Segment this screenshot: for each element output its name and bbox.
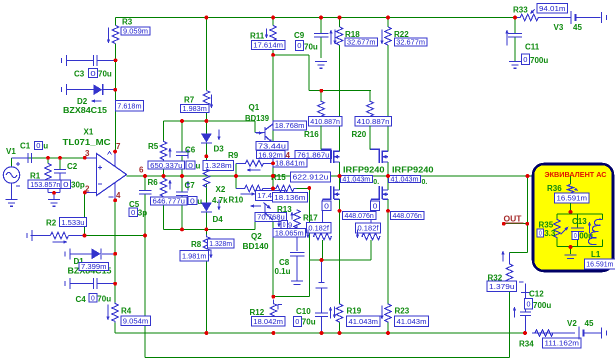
resistor R7 [203,91,209,109]
wire C6 top lead [181,121,183,152]
svg-text:70u: 70u [98,69,112,78]
box 18.065m [273,229,306,238]
svg-text:17.614m: 17.614m [253,41,283,50]
wire R23 bottom lead [387,323,389,334]
resistor R19 [336,304,342,323]
svg-text:0: 0 [539,229,542,238]
wire D2 right lead [104,89,116,91]
junction [83,234,87,238]
wire D1 right lead [102,253,115,255]
wire y229 rail C7 D4 Q2-base [164,228,256,230]
resistor R11 [270,26,276,44]
svg-text:u: u [43,142,48,151]
wire R7 column from rail [205,18,207,91]
capacitor C3 [62,55,67,66]
junction [525,222,529,226]
svg-text:70u: 70u [97,295,111,304]
junction [205,228,209,232]
junction [205,154,209,158]
ground C9 [315,62,327,69]
capacitor C7 [176,192,188,196]
wire C5 top lead [144,176,146,191]
wire gate feed to R16 R20 [309,90,371,92]
svg-text:9.059m: 9.059m [123,27,148,36]
wire pin4 to D1 [114,201,116,254]
wire R1-C2 join [48,192,60,194]
svg-text:16.591m: 16.591m [557,194,588,203]
svg-text:V2: V2 [567,319,577,328]
resistor R1 [45,164,51,182]
resistor R3 [112,26,118,44]
svg-text:R4: R4 [121,307,132,316]
wire L1 top lead [602,214,604,220]
capacitor C6 [176,152,188,156]
svg-text:R12: R12 [250,308,265,317]
svg-text:C7: C7 [185,181,196,190]
svg-text:45: 45 [573,23,582,32]
capacitor C11 [508,34,522,38]
wire D2 left lead [67,89,94,91]
svg-text:9.054m: 9.054m [123,316,149,325]
svg-text:R6: R6 [148,178,159,187]
junction [113,88,117,92]
wire y120 rail C6 D3 Q1-base [164,120,256,122]
junction [386,331,390,335]
svg-text:7.618m: 7.618m [117,101,141,110]
svg-text:R9: R9 [228,151,239,160]
resistor R23 [385,304,391,323]
inductor L1 [589,219,603,244]
ground C8 [291,281,303,284]
wire R22 top lead [387,18,389,28]
svg-text:C1: C1 [20,142,31,151]
svg-text:R16: R16 [304,130,319,139]
svg-text:BZX84C15: BZX84C15 [63,106,108,115]
Q1 box 18.768m [273,121,307,130]
wire FET drain to R19 [339,211,341,304]
svg-text:0.: 0. [373,179,379,186]
wire C2 bottom lead [59,173,61,193]
wire riser to C10 node [308,260,310,297]
junction [271,16,275,20]
wire FET drain to R23 [387,211,389,304]
MOSFET lower right IRFP9240 [371,186,388,200]
capacitor C9 [314,34,329,38]
junction [143,174,147,178]
wire R32 top lead [509,253,511,259]
svg-text:C8: C8 [279,258,290,267]
wire V3 to terminal [576,17,601,19]
junction [234,174,238,178]
resistor R35 [554,219,560,239]
wire C12 bottom lead [525,316,527,334]
svg-text:C11: C11 [525,43,540,52]
diode D4 [201,203,212,213]
wire R35 bottom lead [556,239,558,247]
svg-text:C9: C9 [294,31,305,40]
junction [180,174,184,178]
wire C7 bottom lead [181,196,183,230]
equivalent AC yellow panel [533,164,613,271]
MOSFET lower left IRFP9240 [323,186,340,200]
svg-text:0: 0 [297,41,301,50]
junction [386,16,390,20]
wire gate feed riser [308,55,310,91]
wire R11 to Q1 collector [272,44,274,125]
svg-text:6: 6 [139,166,144,175]
box 0 lower left FET [322,201,331,211]
wire C4 to R4 [114,284,116,303]
svg-text:0.1u: 0.1u [275,267,291,276]
svg-text:622.912u: 622.912u [293,173,329,182]
wire to ground R1C2 [53,193,55,200]
D3 current box [203,160,234,170]
svg-text:0: 0 [523,55,527,64]
junction [271,53,275,57]
wire R2 right lead [69,235,85,237]
svg-text:41.043m: 41.043m [391,175,419,184]
svg-text:OUT: OUT [504,214,523,224]
resistor R8 [203,235,209,257]
junction [386,209,390,213]
junction [320,258,324,262]
junction [320,331,324,335]
capacitor C5 [139,191,152,195]
wire R33 to V3 [542,17,571,19]
svg-text:18.065m: 18.065m [275,229,304,238]
wire left column R3->C3->D2->pin7 [115,44,117,152]
svg-text:X2: X2 [216,185,226,194]
junction [271,187,275,191]
svg-text:0: 0 [527,299,531,308]
box 18.841m [273,159,307,168]
svg-text:0: 0 [188,161,193,170]
box 0.182f left [306,223,331,233]
junction [271,174,275,178]
svg-text:R19: R19 [347,307,362,316]
svg-text:646.777u: 646.777u [153,197,186,206]
wire tank top [557,213,603,215]
wire C2 top lead [59,158,61,170]
node R36 tank [569,210,573,214]
svg-text:0: 0 [36,141,40,150]
svg-text:94.01m: 94.01m [539,4,566,13]
wire D4 to R8 [205,212,207,237]
wire R5 bottom lead [163,161,165,177]
junction [113,252,117,256]
svg-text:32.677m: 32.677m [396,38,425,47]
svg-text:TL071_MC: TL071_MC [63,138,111,147]
junction [205,331,209,335]
svg-text:1.328m: 1.328m [205,161,232,170]
wire C8 to ground [296,257,298,282]
junction [307,186,311,190]
junction [502,222,506,226]
wire Q2 base riser [254,222,256,230]
wire lower left gate lead [322,199,324,233]
wire Q1 collector-emitter column segment [272,125,274,143]
svg-text:0: 0 [295,317,299,326]
svg-text:45: 45 [585,319,594,328]
wire lower right gate res to rail [370,240,372,260]
wire R34 to V2 [556,332,575,334]
svg-text:C10: C10 [296,307,311,316]
resistor R20 [367,101,373,119]
junction [338,331,342,335]
wire R35 top lead [556,214,558,219]
wire R7 to D3 [205,109,207,134]
svg-text:C12: C12 [529,290,544,299]
wire V2 to terminal [584,332,602,334]
MOSFET upper left IRFP9240 [321,149,340,164]
wire lower FET drain left [339,199,341,211]
resistor R15 [274,185,297,191]
svg-text:R17: R17 [303,214,318,223]
junction [319,16,323,20]
junction [513,16,517,20]
svg-text:u: u [197,197,202,206]
wire Q1 emitter to Q2 column [272,143,274,201]
wire C10 mid stem [321,288,323,313]
wire main VAS/output rail y175 [127,175,571,177]
junction [205,16,209,20]
wire C11 top lead [514,18,516,34]
diode D1 BZX84C15 [65,248,70,259]
terminal V2 [602,328,607,339]
svg-text:R3: R3 [122,18,133,27]
wire R13 to C8 [296,226,298,252]
wire C6 bottom lead [181,156,183,177]
svg-text:18.841m: 18.841m [275,159,305,168]
svg-text:ЭКВИВАЛЕНТ АС: ЭКВИВАЛЕНТ АС [545,170,607,179]
wire R15 right lead [297,188,310,190]
svg-text:1.328m: 1.328m [209,239,232,248]
junction [338,174,342,178]
wire OUT riser [527,176,529,253]
junction [180,228,184,232]
resistor R18 [336,27,342,45]
junction [271,161,275,165]
junction [338,209,342,213]
svg-text:30p: 30p [71,181,85,190]
junction [113,198,117,202]
wire C3 left lead [67,59,94,61]
wire R5 top lead [163,121,165,141]
ground tank [570,247,572,255]
wire R1 top lead [47,158,49,164]
capacitor C2 [54,170,66,174]
wire C9 to ground [320,38,322,59]
wire R1 bottom lead [47,182,49,193]
junction [46,156,50,160]
wire upper-lower FET source join left [339,162,341,190]
svg-text:0: 0 [63,180,68,189]
wire Q1 base lead [255,132,265,134]
resistor R5 [160,141,166,161]
svg-text:L1: L1 [591,250,601,259]
resistor R36 [570,176,572,184]
svg-text:1.379u: 1.379u [489,282,515,291]
resistor R16 [318,101,324,119]
wire R16 to gate [320,126,322,150]
wire R15 right riser [308,188,310,260]
svg-text:R8: R8 [191,240,202,249]
wire D1 to C4 [114,254,116,284]
wire C5 bottom lead [144,194,146,236]
svg-text:4.7k: 4.7k [212,196,228,205]
svg-text:C4: C4 [76,295,87,304]
svg-text:0: 0 [90,69,95,78]
wire R2 left lead [31,235,51,237]
svg-text:70u: 70u [302,318,316,327]
junction [113,150,117,154]
junction [83,191,87,195]
OUT underline [503,222,524,224]
wire C12 top lead [525,284,527,293]
svg-text:73.44u: 73.44u [258,141,286,150]
wire R19 bottom lead [339,323,341,334]
junction [272,295,276,299]
wire C3 right lead [97,59,116,61]
wire R22 to upper FET drain [387,45,389,151]
wire lower left gate res to rail [322,240,324,260]
Q1 box 73.44u [256,141,288,150]
junction [569,245,573,249]
resistor R4 [112,303,118,323]
svg-text:0: 0 [373,201,378,210]
svg-text:4: 4 [116,191,121,200]
junction [272,331,276,335]
Q1 box 16.92m [256,150,285,159]
wire Q2 to R12 column [272,220,274,297]
svg-text:C3: C3 [74,70,85,79]
svg-text:Q1: Q1 [249,103,260,112]
wire C4 right lead [97,283,115,285]
wire R6 top lead [163,176,165,179]
svg-text:0: 0 [574,231,577,240]
node R1C2 [52,191,56,195]
svg-text:32.677m: 32.677m [347,38,376,47]
wire R34 left lead [532,332,557,334]
svg-text:7.399m: 7.399m [81,262,107,271]
svg-text:1.981m: 1.981m [182,251,207,260]
wire R11 top lead [272,18,274,26]
ground C11 [509,62,521,69]
svg-text:BD139: BD139 [245,114,270,123]
junction [162,174,166,178]
svg-text:41.043m: 41.043m [342,175,370,184]
svg-text:16.591m: 16.591m [586,260,613,269]
diode D2 BZX84C15 [62,84,67,95]
svg-text:V1: V1 [6,147,16,156]
source V1 [3,162,20,186]
box 18.136m [272,192,307,202]
svg-text:C13: C13 [572,217,587,226]
box L1 16.591m [584,259,615,269]
wire OUT stub [504,223,528,225]
R10 box 17.47m [255,190,284,200]
svg-text:X1: X1 [84,128,94,137]
svg-text:1.533u: 1.533u [61,218,84,227]
wire C4 left lead [70,283,94,285]
svg-text:41.043m: 41.043m [397,317,427,326]
wire R20 to gate [369,126,371,150]
svg-text:R23: R23 [395,307,410,316]
junction [205,119,209,123]
transistor Q2 BD140 [265,203,273,220]
svg-text:C6: C6 [185,146,196,155]
wire R18 to upper FET drain [339,45,341,151]
svg-text:111.162m: 111.162m [545,339,580,348]
resistor R32 [506,257,512,290]
wire to C10 top [309,259,321,261]
MOSFET upper right IRFP9240 [370,149,388,164]
wire Q2R12 node to riser [273,296,309,298]
box 0 lower right FET [371,201,380,211]
wire feedback node to C5 [85,235,146,237]
svg-text:0.182f: 0.182f [308,223,329,232]
svg-text:IRFP9240: IRFP9240 [392,166,434,175]
wire C11 to ground [514,38,516,62]
wire R3 top lead [115,18,117,26]
box 448.076n right [391,211,424,220]
wire lower gates rail [322,259,372,261]
wire C7 top lead [181,176,183,192]
svg-text:R5: R5 [148,142,159,151]
svg-text:D4: D4 [213,215,224,224]
wire C10 bottom lead [321,317,323,334]
wire R36 to tank [570,203,572,214]
op-amp X1 TL071_MC [85,152,127,201]
resistor R10 [236,185,272,191]
resistor R2 [27,230,32,241]
capacitor C12 [519,282,531,316]
resistor R6 [160,179,166,197]
wire R18 top lead [339,18,341,28]
wire V1 to ground [11,183,13,199]
resistor R9 [236,160,273,166]
wire D3 to X2 pot [205,143,207,169]
junction [526,174,530,178]
wire R9-R10 left riser [235,163,237,188]
battery V3 45 [571,11,576,24]
svg-text:V3: V3 [554,23,564,32]
svg-text:410.887n: 410.887n [357,117,390,126]
wire OUT corner to R32 [510,252,528,254]
wire R20 top lead [369,91,371,102]
capacitor C1 [28,153,32,163]
potentiometer X2 4.7k [203,169,209,187]
box 0.182f right [356,223,381,233]
resistor R33 [517,14,543,20]
box 41.043m left [340,175,372,184]
wire D1 left lead [71,253,92,255]
wire C12 mid stem [525,293,527,313]
wire R32 bottom riser [509,290,511,358]
box 761.867u [295,150,331,159]
svg-text:3p: 3p [138,209,147,218]
box 70.768u [255,212,287,221]
capacitor C13 [571,228,584,232]
ground V1 [6,200,18,207]
svg-text:0.: 0. [422,179,428,186]
wire C5 node to bottom rail [144,236,146,358]
wire pin2 to R2 node [84,193,86,236]
resistor R12 [270,300,276,326]
svg-text:IRFP9240: IRFP9240 [343,166,385,175]
svg-text:D2: D2 [77,97,88,106]
junction [180,119,184,123]
